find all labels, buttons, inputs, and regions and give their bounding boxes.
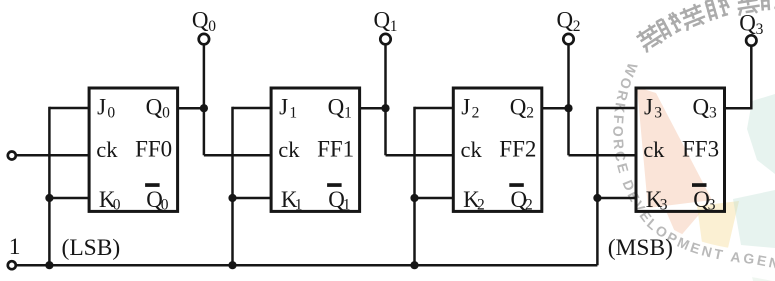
svg-text:FF0: FF0 xyxy=(135,136,172,161)
svg-text:1: 1 xyxy=(343,196,351,213)
svg-text:Q: Q xyxy=(374,8,391,33)
svg-text:Q: Q xyxy=(146,94,163,119)
svg-text:2: 2 xyxy=(526,105,534,122)
svg-text:1: 1 xyxy=(295,196,303,213)
svg-text:1: 1 xyxy=(390,18,398,35)
svg-text:2: 2 xyxy=(525,196,533,213)
svg-text:0: 0 xyxy=(162,105,170,122)
svg-text:FF3: FF3 xyxy=(682,136,719,161)
svg-text:Q: Q xyxy=(328,94,345,119)
svg-text:0: 0 xyxy=(161,196,169,213)
svg-text:Q: Q xyxy=(557,8,574,33)
svg-text:J: J xyxy=(644,94,653,119)
svg-text:2: 2 xyxy=(573,18,581,35)
svg-text:3: 3 xyxy=(709,105,717,122)
svg-text:1: 1 xyxy=(344,105,352,122)
svg-text:(MSB): (MSB) xyxy=(608,235,673,261)
svg-text:3: 3 xyxy=(654,105,662,122)
svg-text:Q: Q xyxy=(739,11,756,36)
svg-text:0: 0 xyxy=(107,105,115,122)
svg-text:ck: ck xyxy=(96,137,118,162)
svg-text:J: J xyxy=(97,94,106,119)
svg-text:(LSB): (LSB) xyxy=(62,235,121,261)
svg-text:3: 3 xyxy=(660,196,668,213)
svg-text:1: 1 xyxy=(289,105,297,122)
svg-text:2: 2 xyxy=(472,105,480,122)
svg-text:ck: ck xyxy=(278,137,300,162)
svg-text:J: J xyxy=(461,94,470,119)
svg-text:ck: ck xyxy=(643,137,665,162)
svg-text:Q: Q xyxy=(510,94,527,119)
svg-text:3: 3 xyxy=(708,196,716,213)
svg-text:Q: Q xyxy=(192,8,209,33)
svg-text:3: 3 xyxy=(756,21,764,38)
svg-text:J: J xyxy=(279,94,288,119)
svg-text:0: 0 xyxy=(113,196,121,213)
svg-text:FF1: FF1 xyxy=(317,136,354,161)
svg-text:0: 0 xyxy=(208,18,216,35)
svg-text:ck: ck xyxy=(461,137,483,162)
svg-text:FF2: FF2 xyxy=(499,136,536,161)
svg-text:2: 2 xyxy=(477,196,485,213)
svg-text:Q: Q xyxy=(693,94,710,119)
svg-text:1: 1 xyxy=(9,234,21,260)
